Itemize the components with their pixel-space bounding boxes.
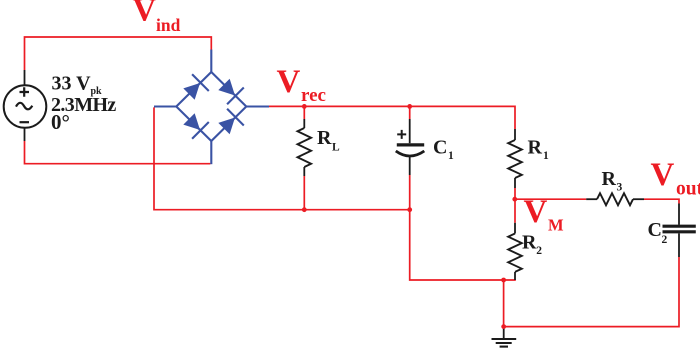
resistor R1 (508, 129, 522, 188)
svg-text:R: R (528, 137, 543, 159)
label C1 (433, 137, 454, 162)
label R3 (602, 168, 623, 193)
label Vout (651, 157, 700, 200)
svg-text:1: 1 (543, 150, 549, 162)
label RL (317, 127, 340, 153)
resistor R3 (horizontal) (586, 193, 644, 205)
svg-text:33 V: 33 V (52, 72, 92, 94)
svg-text:C: C (648, 219, 662, 241)
voltage source plus sign (20, 87, 30, 96)
svg-text:rec: rec (301, 85, 326, 106)
resistor R2 (508, 223, 522, 280)
svg-text:0°: 0° (51, 110, 70, 134)
diode D2 top-right (points to right corner) (218, 79, 243, 104)
node VM junction dot (512, 197, 517, 202)
voltage source bottom lead (24, 128, 26, 141)
diode D1 top-left (points to top corner) (183, 74, 208, 99)
wire bottom of source to bridge bottom (25, 141, 211, 164)
capacitor C1 (polarized) (396, 119, 425, 175)
svg-text:R: R (602, 168, 617, 190)
wire bridge left corner down to bottom rail and across to C1 bottom (154, 107, 410, 209)
svg-text:R: R (522, 231, 537, 253)
capacitor C1 plus sign (397, 130, 406, 139)
svg-text:V: V (651, 157, 675, 193)
wire top rail from bridge right to R1 top (269, 106, 515, 129)
svg-text:2: 2 (662, 234, 668, 246)
diode bridge diamond frame (176, 72, 246, 141)
wire R1 bottom to VM node to R2 top (514, 188, 516, 223)
capacitor C2 (663, 204, 696, 258)
svg-text:2: 2 (536, 245, 542, 257)
wire blue stub bridge left (154, 105, 176, 107)
label R2 (522, 231, 542, 257)
node RL bottom junction dot (302, 207, 307, 212)
wire blue stub bridge right (246, 105, 269, 107)
svg-text:R: R (317, 127, 332, 149)
label source value 33 Vpk (52, 72, 103, 97)
diode D4 bottom-right (points to right corner) (218, 109, 243, 134)
diode D3 bottom-left (points to bottom corner) (183, 113, 208, 138)
svg-text:C: C (433, 137, 447, 159)
wire VM node to R3 left (515, 198, 586, 200)
wire RL column red segments (303, 106, 305, 209)
wire R3 right to C2 top (644, 199, 679, 203)
svg-text:M: M (548, 216, 564, 235)
label R1 (528, 137, 550, 163)
label Vrec (277, 64, 326, 106)
svg-text:ind: ind (156, 15, 181, 35)
node Vrec junction dot (302, 104, 307, 109)
svg-text:V: V (277, 64, 301, 100)
voltage source top lead (24, 70, 26, 85)
label C2 (648, 219, 668, 246)
voltage source sine symbol (16, 103, 32, 110)
svg-text:L: L (332, 141, 340, 153)
voltage source minus sign (20, 121, 30, 123)
resistor RL (298, 119, 312, 176)
node C1 bottom junction dot (407, 207, 412, 212)
node R2 bottom junction dot (501, 278, 506, 283)
svg-text:out: out (676, 179, 700, 200)
label VM (524, 194, 565, 235)
svg-text:V: V (133, 0, 157, 29)
wire C1 column red segments and lower rail to R2 bottom (410, 106, 516, 280)
wire top loop from source to bridge top (25, 37, 212, 70)
ground (492, 327, 517, 347)
wire blue stub bridge bottom (210, 141, 212, 164)
label Vind (133, 0, 181, 35)
node ground junction dot (501, 324, 506, 329)
svg-text:3: 3 (617, 182, 623, 194)
node C1 top junction dot (407, 104, 412, 109)
wire blue stub bridge top (210, 50, 212, 73)
voltage source V1 circle (4, 85, 47, 128)
wire R2 bottom node down to ground node (503, 280, 505, 327)
wire C2 bottom down and across to ground node (504, 257, 679, 327)
svg-text:1: 1 (448, 150, 454, 162)
svg-text:V: V (524, 194, 548, 230)
